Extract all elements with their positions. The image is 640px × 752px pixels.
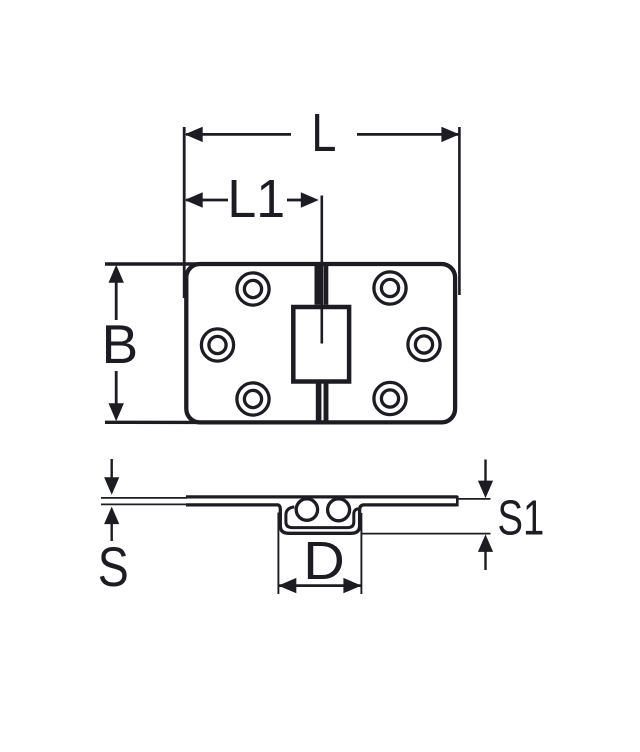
svg-text:D: D [303, 531, 345, 591]
L dimension line right segment [357, 133, 459, 136]
L1 dimension line left segment [186, 199, 228, 202]
D arrow left [278, 578, 296, 593]
B arrow bottom [109, 403, 124, 421]
hole bottom-right inner [381, 390, 398, 407]
hole top-right outer [374, 272, 406, 304]
slot right leaf edge lower [324, 384, 329, 423]
D arrow right [343, 578, 361, 593]
section: plate top surface (continuous across knuckle) [186, 495, 457, 498]
L1 arrow left [185, 192, 203, 207]
hole bottom-right outer [374, 382, 406, 414]
B extension line top [105, 262, 202, 265]
hole mid-left inner [209, 336, 226, 353]
D extension line right [360, 513, 362, 594]
hole mid-left outer [201, 329, 233, 361]
slot left leaf edge upper [315, 262, 321, 305]
S1 dimension upper line [484, 460, 486, 482]
B dimension line upper segment [115, 280, 118, 320]
svg-text:L1: L1 [227, 169, 285, 229]
S arrow bottom (points up) [104, 507, 119, 524]
S1 extension line top [458, 498, 491, 500]
section: U channel inner surface [286, 507, 359, 528]
svg-text:S: S [98, 535, 129, 598]
slot right leaf edge upper [323, 264, 328, 305]
L arrow right [441, 127, 459, 142]
knuckle rectangle [293, 307, 349, 382]
L1 dimension line right segment [287, 199, 303, 202]
hole mid-right inner [415, 336, 432, 353]
S dimension lower line [110, 523, 112, 541]
section: left curl circle [296, 499, 317, 520]
section: S extension line top [101, 497, 187, 499]
hinge body top view [186, 264, 455, 422]
L extension line left [183, 127, 186, 298]
D dimension line [279, 584, 361, 587]
L dimension line left segment [186, 133, 291, 136]
svg-text:L: L [311, 103, 336, 163]
section: S extension line bottom [101, 503, 187, 505]
L extension line right [458, 127, 461, 295]
S dimension upper line [110, 459, 112, 480]
svg-text:S1: S1 [498, 491, 545, 546]
L arrow left [185, 127, 203, 142]
S1 extension line bottom [362, 533, 491, 535]
hole mid-right outer [408, 328, 440, 360]
L1 arrow right [301, 192, 319, 207]
pin center line [320, 196, 323, 344]
B extension line bottom [105, 421, 202, 425]
svg-text:B: B [101, 313, 138, 375]
S1 dimension lower line [484, 551, 486, 570]
hole top-right inner [381, 279, 398, 296]
section: right plate end cap [456, 496, 459, 507]
section: right curl circle [328, 499, 350, 521]
D extension line left [277, 513, 279, 595]
B dimension line lower segment [115, 371, 118, 405]
hole bottom-left inner [244, 390, 261, 407]
B arrow top [109, 265, 124, 283]
hole top-left inner [244, 280, 261, 297]
section: outer boundary (left plate bottom, U channel outer, right plate bottom) [186, 505, 457, 533]
S1 arrow bottom (points up) [478, 534, 493, 552]
hole top-left outer [237, 273, 269, 305]
hole bottom-left outer [237, 383, 269, 415]
S1 arrow top (points down) [478, 481, 493, 499]
slot left leaf edge lower [316, 384, 322, 423]
S arrow top (points down) [104, 477, 119, 495]
